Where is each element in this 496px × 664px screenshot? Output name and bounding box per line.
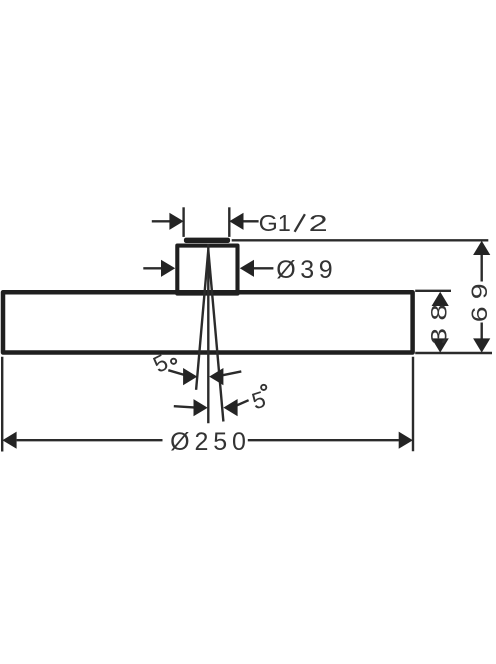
svg-text:Ø39: Ø39 [276,256,337,284]
svg-text:38: 38 [426,297,451,345]
svg-text:69: 69 [468,276,492,322]
svg-text:G: G [259,211,278,237]
svg-text:1: 1 [278,210,291,236]
svg-text:2: 2 [309,210,328,236]
svg-text:Ø250: Ø250 [170,428,251,456]
